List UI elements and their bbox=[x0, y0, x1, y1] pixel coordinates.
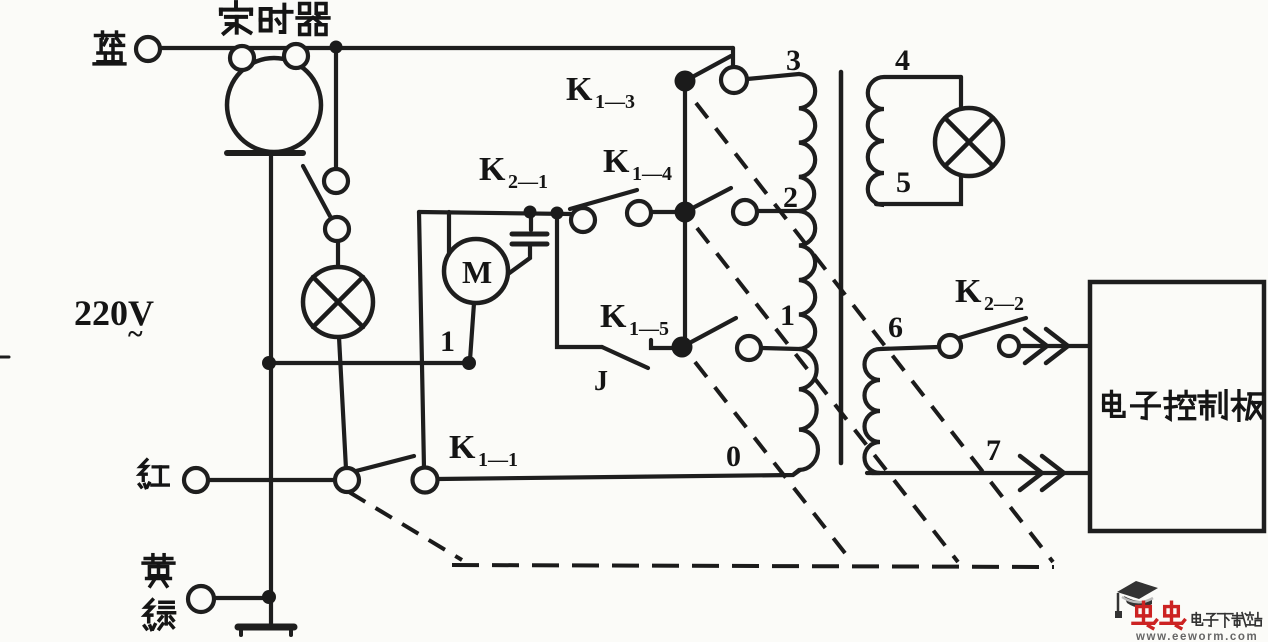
capacitor C stub bbox=[529, 212, 533, 230]
logo ChongChong red bbox=[1133, 602, 1185, 628]
svg-text:1—5: 1—5 bbox=[629, 318, 669, 340]
switch K2-1 fixed contact bbox=[627, 201, 651, 225]
lamp X marks bbox=[313, 118, 993, 327]
svg-text:0: 0 bbox=[726, 440, 741, 473]
terminal yellow-green bbox=[188, 586, 214, 612]
svg-text:K: K bbox=[566, 71, 593, 108]
ground symbol bar bbox=[238, 624, 294, 631]
capacitor C lead to motor bbox=[508, 246, 530, 274]
node K2-1 left dot bbox=[524, 206, 537, 219]
node M bottom bbox=[462, 356, 476, 370]
svg-text:5: 5 bbox=[896, 166, 911, 199]
wire node down to K1-1 fixed contact bbox=[419, 212, 424, 468]
wire 7 output to control board bbox=[867, 471, 1089, 475]
wire timer branch vertical bbox=[334, 53, 338, 170]
wire corner down to K1-3 contact bbox=[731, 48, 735, 68]
wire 4-5 winding bottom to lamp bbox=[876, 170, 961, 204]
timer switch contact A bbox=[324, 169, 348, 193]
node K1-4 moving blob bbox=[675, 202, 696, 223]
svg-text:2: 2 bbox=[783, 181, 798, 214]
switch K2-2 moving contact bbox=[939, 335, 961, 357]
capacitor C plates bbox=[512, 232, 547, 237]
node K1-5 moving blob bbox=[672, 337, 693, 358]
transformer secondary winding 6-7 bbox=[865, 347, 939, 473]
timer terminal circle right bbox=[284, 44, 308, 68]
logo DianZiXiaZaiZhan bbox=[1192, 612, 1261, 627]
switch K2-1 moving contact bbox=[571, 208, 595, 232]
switch K1-5 blade bbox=[682, 318, 736, 347]
svg-text:~: ~ bbox=[128, 319, 143, 350]
relay contact J fixed side bbox=[651, 340, 674, 348]
wire drop to motor M bbox=[447, 212, 451, 254]
timer terminal circle left bbox=[230, 46, 254, 70]
svg-text:K: K bbox=[600, 298, 627, 335]
terminal red bbox=[184, 468, 208, 492]
label board DianZiKongZhiBan bbox=[1104, 391, 1124, 416]
svg-text:www.eeworm.com: www.eeworm.com bbox=[1135, 631, 1258, 642]
wire junction to J contact bbox=[557, 213, 602, 347]
svg-text:2—1: 2—1 bbox=[508, 171, 548, 193]
svg-text:1—1: 1—1 bbox=[478, 449, 518, 471]
Latin / digit labels bbox=[74, 44, 1024, 473]
stray mark left margin bbox=[0, 356, 9, 359]
label Lan (blue) bbox=[94, 32, 125, 64]
svg-text:3: 3 bbox=[786, 44, 801, 77]
svg-text:2—2: 2—2 bbox=[984, 293, 1024, 315]
relay contact J blade bbox=[602, 347, 648, 368]
dashed link K1-3 long diagonal bbox=[696, 103, 1053, 562]
lamp L1 cross bbox=[313, 277, 363, 327]
arrow chevrons on wire 6 bbox=[1025, 329, 1047, 363]
wire red terminal to K1-1 bbox=[208, 478, 335, 482]
wire K1-5 contact to winding tap 1 bbox=[761, 348, 799, 349]
switch K1-3 blade bbox=[685, 56, 731, 81]
dashed mechanical linkages bbox=[349, 103, 1054, 567]
wire M bottom lead bbox=[470, 303, 474, 360]
svg-text:1: 1 bbox=[780, 299, 795, 332]
wire 4-5 winding top stub to lamp bbox=[959, 77, 963, 113]
logo graduation cap bbox=[1115, 581, 1158, 618]
wire K1-1 fixed to transformer tap 0 bbox=[437, 470, 800, 479]
switch K2-1 blade bbox=[570, 190, 637, 209]
motor M body bbox=[444, 239, 508, 303]
label Huang (yellow) bbox=[143, 555, 174, 587]
lamp L2 bbox=[935, 108, 1003, 176]
label Hong (red) bbox=[139, 460, 168, 488]
dashed link K1-5 diagonal bbox=[695, 362, 852, 562]
switch K1-1 fixed contact bbox=[413, 468, 438, 493]
timer motor body bbox=[227, 58, 321, 152]
switch K1-1 moving contact bbox=[335, 468, 359, 492]
timer switch contact B bbox=[325, 217, 349, 241]
svg-text:1—4: 1—4 bbox=[632, 163, 672, 185]
switch K1-5 fixed contact bbox=[737, 336, 761, 360]
wire lamp down to K1-1 bbox=[339, 337, 346, 469]
wire yellow-green terminal to ground line bbox=[214, 596, 269, 600]
lamp L1 bbox=[303, 267, 373, 337]
timer base bar bbox=[227, 150, 303, 156]
svg-text:K: K bbox=[479, 151, 506, 188]
transformer T1 primary winding taps 3-2-1-0 bbox=[794, 74, 818, 474]
transformer secondary winding 4-5 bbox=[868, 77, 961, 205]
node K2-1 right dot bbox=[551, 207, 564, 220]
svg-text:K: K bbox=[449, 429, 476, 466]
switch K2-2 blade bbox=[959, 318, 1026, 338]
wire K1-4 contact to winding tap 2 bbox=[757, 209, 799, 213]
wire top main bbox=[160, 46, 733, 50]
circles layer bbox=[136, 37, 1019, 612]
svg-text:6: 6 bbox=[888, 311, 903, 344]
svg-text:K: K bbox=[603, 143, 630, 180]
node top junction bbox=[330, 41, 343, 54]
wire trunk of K1 switch bank bbox=[683, 81, 687, 347]
control board box bbox=[1090, 282, 1264, 531]
svg-text:4: 4 bbox=[895, 44, 910, 77]
timer switch blade bbox=[303, 166, 331, 218]
dashed link K1-1 to rail bbox=[349, 492, 462, 560]
node K1-3 moving blob bbox=[675, 71, 696, 92]
wire 220V feed horizontal bbox=[271, 361, 469, 365]
wire 6 output from K2-2 to control board bbox=[1019, 344, 1089, 348]
svg-text:J: J bbox=[594, 366, 608, 397]
terminal blue bbox=[136, 37, 160, 61]
label DingShiQi (timer) bbox=[221, 2, 251, 33]
transformer core bbox=[839, 72, 844, 463]
node 220V left bbox=[262, 356, 276, 370]
switch K1-4 fixed contact bbox=[733, 200, 757, 224]
svg-text:K: K bbox=[955, 273, 982, 310]
svg-text:7: 7 bbox=[986, 434, 1001, 467]
wire left main vertical bbox=[269, 152, 273, 625]
dashed link K1-4 diagonal bbox=[697, 228, 958, 562]
switch K1-1 blade bbox=[356, 456, 414, 471]
svg-text:1: 1 bbox=[440, 325, 455, 358]
svg-text:M: M bbox=[462, 254, 492, 290]
wire K2-1 fixed to K1-4 node bbox=[652, 210, 677, 214]
lamp L2 cross bbox=[945, 118, 993, 166]
switch K1-3 fixed contact bbox=[721, 67, 747, 93]
node ground bbox=[262, 590, 276, 604]
wire K2-1 node horizontal bbox=[419, 212, 571, 214]
wire switch to lamp bbox=[336, 240, 340, 268]
switch K1-4 blade bbox=[685, 188, 731, 212]
svg-text:1—3: 1—3 bbox=[595, 91, 635, 113]
switch K2-2 fixed contact bbox=[999, 336, 1019, 356]
dashed rail bottom bbox=[452, 565, 1054, 567]
wire K1-3 contact to winding tap 3 bbox=[747, 74, 799, 79]
label Lv (green) bbox=[145, 600, 175, 630]
arrow chevrons on wire 7 bbox=[1020, 456, 1042, 490]
